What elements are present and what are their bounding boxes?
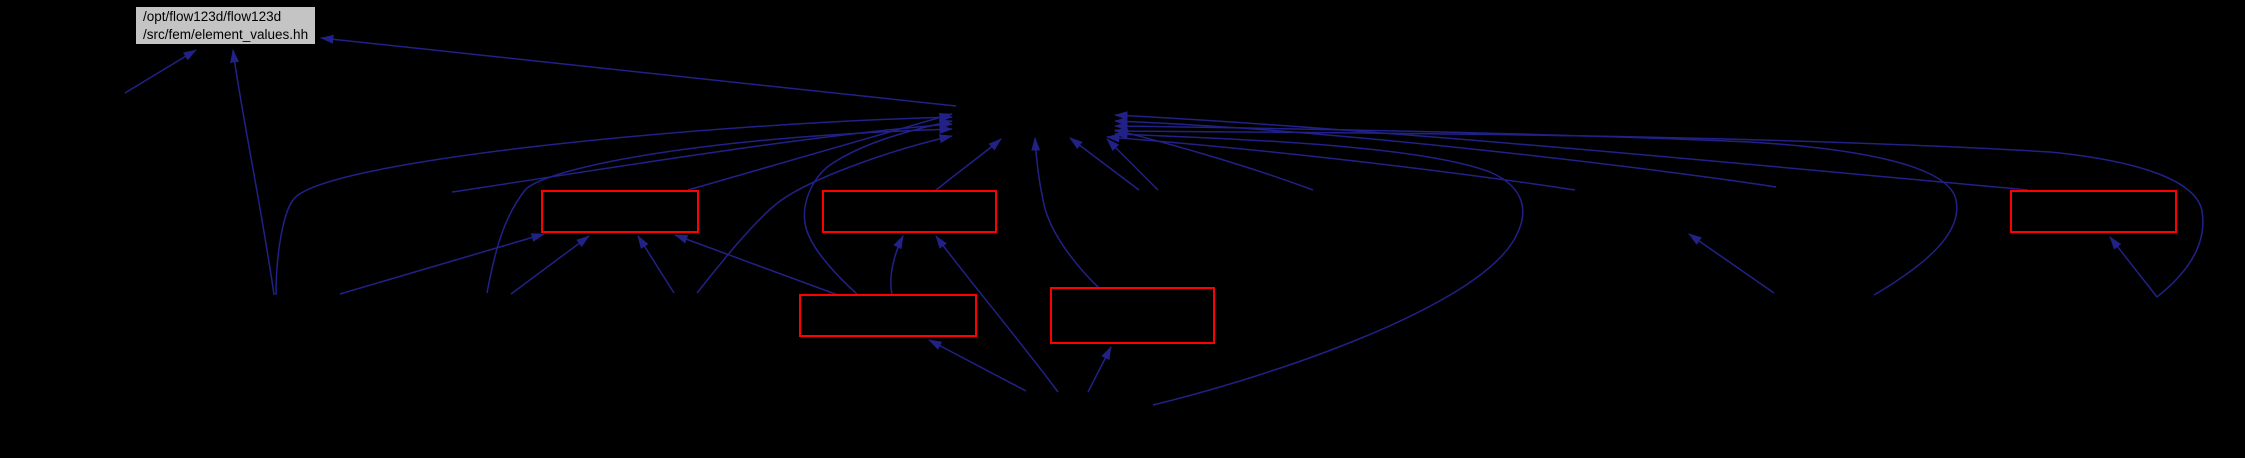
svg-text:/opt/flow123d/flow123d: /opt/flow123d/flow123d (143, 9, 281, 24)
svg-text:/src/fem/element_values.hh: /src/fem/element_values.hh (143, 27, 308, 42)
